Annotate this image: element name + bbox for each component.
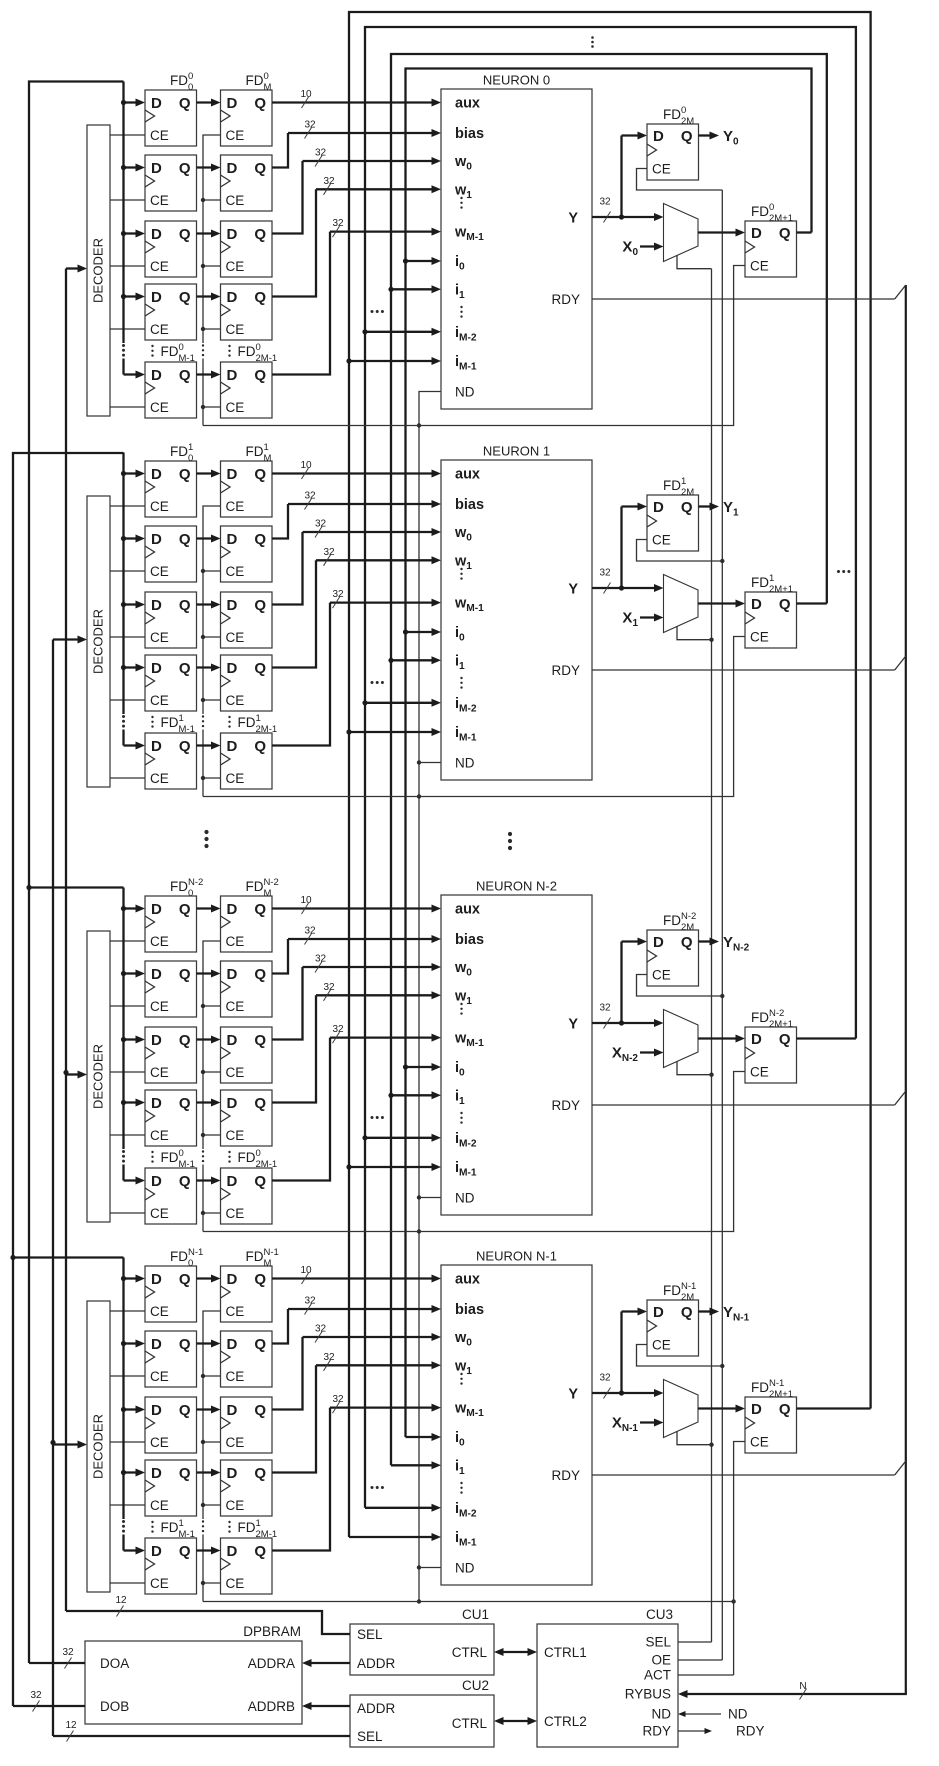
wire RDY output section 2 (592, 1091, 906, 1105)
junction CE bus row 1 section 0 (201, 198, 205, 202)
wire Q to D row 2 section 2 (197, 1036, 221, 1044)
svg-text:CE: CE (750, 630, 769, 645)
flip-flop FD2M-1^N-2 section 2 (221, 1168, 273, 1224)
junction SEL line section 2 (709, 1073, 713, 1077)
wire YN-1 output section 3 (699, 1304, 750, 1324)
flip-flop FD0^1 section 1 (145, 461, 197, 517)
svg-text:bias: bias (455, 1302, 484, 1318)
wire Q to D row 4 section 0 (197, 371, 221, 379)
junction OE line section 1 (720, 559, 724, 563)
svg-text:CE: CE (226, 128, 245, 143)
svg-text:1: 1 (256, 713, 261, 724)
wire ND chain vertical linking all sections (419, 392, 441, 1602)
wire mux select to SEL line section 0 (677, 255, 712, 269)
junction CE bus row 1 section 3 (201, 1374, 205, 1378)
svg-text:D: D (751, 596, 762, 613)
flip-flop FD2^0 section 0 (145, 221, 197, 277)
wire mux select to SEL line section 1 (677, 626, 712, 640)
wire i-input tap 1 section 2 (388, 1091, 441, 1099)
svg-text:32: 32 (332, 1024, 344, 1035)
wire D input bus section 1 (122, 453, 124, 746)
svg-text:D: D (653, 934, 664, 951)
wire Q row 2 to neuron input section 1 (272, 528, 441, 605)
wire D bus to FD1 section 2 (124, 970, 146, 978)
svg-text:aux: aux (455, 96, 480, 112)
flip-flop FDM+2^0 section 0 (221, 221, 273, 277)
svg-text:32: 32 (332, 589, 344, 600)
wire Y to FD2M D section 2 (622, 938, 648, 1024)
flip-flop FDM+2^N-2 section 2 (221, 1027, 273, 1083)
svg-text:CE: CE (226, 564, 245, 579)
junction ND line section 2 (417, 1229, 421, 1233)
junction CE bus row 2 section 3 (201, 1440, 205, 1444)
svg-text:D: D (227, 531, 238, 548)
flip-flop FD2^N-2 section 2 (145, 1027, 197, 1083)
wire FD2M CE to OE line section 0 (637, 169, 723, 191)
wire decoder output to CE row 4 section 2 (110, 1212, 145, 1214)
flip-flop FD2M-1^N-1 section 3 (221, 1538, 273, 1594)
junction D bus row 1 section 0 (121, 165, 126, 170)
flip-flop FDM-1^1 section 1 (145, 733, 197, 789)
svg-text:Q: Q (179, 738, 191, 755)
svg-text:0: 0 (179, 342, 184, 353)
svg-text:FD: FD (170, 444, 188, 459)
junction CE bus row 2 section 0 (201, 264, 205, 268)
flip-flop FDM+3^N-2 section 2 (221, 1090, 273, 1146)
svg-text:DECODER: DECODER (91, 609, 106, 674)
wire decoder output to CE row 1 section 1 (110, 570, 145, 572)
svg-text:RDY: RDY (551, 1468, 580, 1483)
flip-flop FDM^N-2 section 2 (221, 896, 273, 952)
svg-text:bias: bias (455, 126, 484, 142)
svg-text:N-1: N-1 (188, 1247, 203, 1258)
svg-text:Q: Q (254, 289, 266, 306)
svg-text:D: D (227, 1465, 238, 1482)
junction OE line section 3 (720, 1364, 724, 1368)
svg-text:CE: CE (226, 1369, 245, 1384)
svg-text:D: D (227, 1402, 238, 1419)
svg-text:FD: FD (246, 879, 264, 894)
wire Q row 3 to neuron input section 0 (272, 185, 441, 296)
svg-text:Q: Q (179, 226, 191, 243)
svg-text:0: 0 (264, 71, 269, 82)
svg-text:Q: Q (254, 1336, 266, 1353)
wire Q to D row 3 section 2 (197, 1099, 221, 1107)
svg-text:2M: 2M (681, 487, 694, 498)
wire i-input tap 2 section 0 (362, 328, 441, 336)
ellipsis between sections center (508, 832, 512, 850)
svg-text:Q: Q (254, 160, 266, 177)
bus width 32 label row 4 section 0 (332, 218, 344, 237)
wire D bus to FD2 section 2 (124, 1036, 146, 1044)
svg-text:D: D (227, 160, 238, 177)
svg-text:D: D (227, 1032, 238, 1049)
svg-text:ND: ND (455, 756, 475, 771)
svg-text:32: 32 (62, 1647, 74, 1658)
bus width 32 label row 2 section 2 (315, 954, 327, 973)
wire RDY external output (678, 1724, 765, 1739)
svg-text:1: 1 (256, 1518, 261, 1529)
junction Y node section 2 (619, 1020, 624, 1025)
wire Y output to mux section 0 (592, 213, 664, 221)
wire decoder output to CE row 3 section 2 (110, 1134, 145, 1136)
flip-flop FD2M-1^1 section 1 (221, 733, 273, 789)
bus width 32 label DOA (62, 1647, 74, 1669)
svg-text:CTRL2: CTRL2 (544, 1714, 587, 1729)
svg-text:FD: FD (663, 913, 681, 928)
svg-text:0: 0 (188, 1258, 193, 1269)
svg-text:CTRL: CTRL (452, 1645, 488, 1660)
svg-text:32: 32 (323, 1352, 335, 1363)
svg-text:Q: Q (779, 596, 791, 613)
svg-text:FD: FD (751, 1380, 769, 1395)
svg-text:FD: FD (170, 73, 188, 88)
flip-flop FDM+1^0 section 0 (221, 155, 273, 211)
wire Q to D row 0 section 0 (197, 99, 221, 107)
bus width 32 label row 4 section 2 (332, 1024, 344, 1043)
svg-text:RDY: RDY (551, 1098, 580, 1113)
junction CE bus row 1 section 2 (201, 1004, 205, 1008)
wire Q row 3 to neuron input section 2 (272, 991, 441, 1102)
svg-text:Q: Q (179, 1336, 191, 1353)
wire D bus to FD1 section 0 (124, 164, 146, 172)
bus width 32 label row 2 section 0 (315, 148, 327, 167)
wire decoder output to CE row 2 section 1 (110, 636, 145, 638)
svg-text:D: D (151, 597, 162, 614)
junction ND pin section 1 (417, 760, 441, 764)
svg-text:N: N (799, 1681, 806, 1692)
wire Y output to mux section 2 (592, 1019, 664, 1027)
flip-flop FD2^1 section 1 (145, 592, 197, 648)
svg-text:M: M (264, 82, 272, 93)
wire D bus to FD4 section 3 (124, 1547, 146, 1555)
neuron NEURON N-2 section 2 (441, 879, 592, 1216)
junction ND line section 0 (417, 423, 421, 427)
svg-text:D: D (151, 1173, 162, 1190)
junction CE bus row 2 section 2 (201, 1070, 205, 1074)
svg-text:1: 1 (179, 1518, 184, 1529)
svg-text:Q: Q (179, 367, 191, 384)
ellipsis i-bus section 0 (371, 310, 384, 313)
wire D bus to FD4 section 1 (124, 742, 146, 750)
wire Q row 3 to neuron input section 1 (272, 556, 441, 667)
wire decoder output to CE row 2 section 2 (110, 1071, 145, 1073)
svg-text:D: D (653, 128, 664, 145)
wire FD2M CE to OE line section 2 (637, 975, 723, 997)
wire D bus to FD0 section 2 (124, 905, 146, 913)
junction ACT at section 3 ND line (731, 1599, 735, 1603)
wire ACT control line from CU3 to section 3 net (733, 1602, 735, 1676)
svg-text:FD: FD (161, 1520, 179, 1535)
svg-text:Q: Q (179, 1173, 191, 1190)
label FD_0^N-2 section 2 (170, 877, 203, 899)
svg-text:aux: aux (455, 902, 480, 918)
label FD_M^0 section 0 (246, 71, 272, 93)
wire aux bus section 2 (272, 905, 441, 913)
wire FD2M CE to OE line section 1 (637, 540, 723, 562)
svg-text:D: D (151, 901, 162, 918)
svg-text:D: D (227, 1095, 238, 1112)
svg-text:2M-1: 2M-1 (256, 353, 278, 364)
bus width 12 label CU1 SEL (115, 1595, 127, 1617)
flip-flop FDM+3^1 section 1 (221, 655, 273, 711)
decoder DECODER section 2 (87, 931, 110, 1222)
bus width slash N on RYBUS wire (799, 1681, 806, 1700)
wire ND net section 1 (203, 637, 745, 797)
svg-text:32: 32 (304, 926, 316, 937)
flip-flop FDM-1^0 section 0 (145, 362, 197, 418)
bus width 32 label Y section 2 (599, 1003, 611, 1029)
svg-text:SEL: SEL (357, 1729, 383, 1744)
wire Q row 1 to neuron input section 3 (272, 1305, 441, 1344)
wire Q to D row 2 section 3 (197, 1406, 221, 1414)
wire CU3 OE output (678, 1659, 722, 1661)
svg-text:D: D (151, 966, 162, 983)
svg-text:32: 32 (323, 547, 335, 558)
svg-text:D: D (151, 738, 162, 755)
wire Y to FD2M D section 0 (622, 132, 648, 218)
flip-flop FD2M^N-1 section 3 (647, 1300, 699, 1356)
wire Q to D row 4 section 2 (197, 1177, 221, 1185)
wire decoder output to CE row 4 section 1 (110, 777, 145, 779)
wire Q to D row 1 section 1 (197, 535, 221, 543)
wire XN-1 input section 3 (612, 1415, 664, 1435)
svg-text:CE: CE (750, 1065, 769, 1080)
junction CE bus row 4 section 1 (201, 776, 205, 780)
wire Y output to mux section 1 (592, 584, 664, 592)
ellipsis CE bus break section 2 (202, 1150, 204, 1162)
ellipsis CE bus break section 3 (202, 1520, 204, 1532)
label FD_M-1^0 section 0 (151, 342, 195, 364)
svg-text:N-2: N-2 (188, 877, 203, 888)
junction ND pin section 2 (417, 1195, 441, 1199)
wire FD2M+1 Q to feedback riser section 2 (797, 1037, 856, 1039)
wire RDY output section 0 (592, 285, 906, 299)
svg-text:CE: CE (150, 1065, 169, 1080)
svg-text:CU2: CU2 (462, 1678, 489, 1693)
label FD_0^N-1 section 3 (170, 1247, 203, 1269)
wire D bus to FD3 section 3 (124, 1469, 146, 1477)
wire Q to D row 2 section 0 (197, 230, 221, 238)
wire Q to D row 3 section 3 (197, 1469, 221, 1477)
svg-text:ADDR: ADDR (357, 1701, 396, 1716)
svg-text:N-2: N-2 (769, 1008, 784, 1019)
svg-text:CE: CE (652, 533, 671, 548)
wire decoder output to CE row 3 section 0 (110, 328, 145, 330)
decoder DECODER section 3 (87, 1301, 110, 1592)
wire mux select to SEL line section 2 (677, 1061, 712, 1075)
svg-text:2M-1: 2M-1 (256, 1529, 278, 1540)
svg-text:N-2: N-2 (264, 877, 279, 888)
wire DOB output (13, 1705, 85, 1707)
svg-text:Q: Q (179, 1271, 191, 1288)
svg-text:CE: CE (150, 934, 169, 949)
wire Y0 output section 0 (699, 128, 740, 148)
svg-text:D: D (151, 1032, 162, 1049)
svg-text:D: D (653, 1304, 664, 1321)
svg-text:DECODER: DECODER (91, 1044, 106, 1109)
junction CE bus row 4 section 0 (201, 405, 205, 409)
svg-text:NEURON N-1: NEURON N-1 (476, 1249, 557, 1264)
wire D bus to FD0 section 3 (124, 1275, 146, 1283)
svg-text:32: 32 (315, 148, 327, 159)
junction D bus row 2 section 1 (121, 602, 126, 607)
ellipsis D bus break section 3 (122, 1520, 125, 1533)
wire RDY output section 3 (592, 1461, 906, 1475)
wire Q to D row 3 section 0 (197, 293, 221, 301)
svg-text:1: 1 (179, 713, 184, 724)
bus width 32 label Y section 0 (599, 197, 611, 223)
flip-flop FDM+3^0 section 0 (221, 284, 273, 340)
flip-flop FDM+3^N-1 section 3 (221, 1460, 273, 1516)
svg-text:32: 32 (315, 1324, 327, 1335)
svg-text:Y: Y (568, 1387, 578, 1403)
svg-text:0: 0 (256, 1148, 261, 1159)
svg-text:FD: FD (751, 1010, 769, 1025)
label FD_M^N-2 section 2 (246, 877, 279, 899)
svg-text:Q: Q (179, 1032, 191, 1049)
bus width 32 label row 3 section 2 (323, 982, 335, 1001)
junction CE bus row 3 section 0 (201, 327, 205, 331)
bus width 32 label row 2 section 3 (315, 1324, 327, 1343)
svg-text:0: 0 (256, 342, 261, 353)
svg-text:0: 0 (179, 1148, 184, 1159)
memory DPBRAM (85, 1624, 302, 1724)
svg-text:Q: Q (179, 597, 191, 614)
wire i-input tap 2 section 1 (362, 699, 441, 707)
flip-flop FD3^1 section 1 (145, 655, 197, 711)
wire D input bus section 3 (122, 1258, 124, 1551)
svg-text:CE: CE (226, 499, 245, 514)
svg-text:Q: Q (179, 289, 191, 306)
control unit CU3 (537, 1607, 678, 1747)
svg-text:D: D (227, 466, 238, 483)
wire CE bus column 2 section 0 (203, 135, 221, 426)
wire i-input tap 0 section 0 (403, 257, 441, 265)
junction D bus row 0 section 2 (121, 906, 126, 911)
svg-text:Q: Q (179, 95, 191, 112)
flip-flop FDM-1^N-2 section 2 (145, 1168, 197, 1224)
wire Y1 output section 1 (699, 499, 740, 519)
svg-text:M-1: M-1 (179, 353, 195, 364)
wire aux bus section 3 (272, 1275, 441, 1283)
wire Q to D row 0 section 1 (197, 470, 221, 478)
wire D bus to FD1 section 1 (124, 535, 146, 543)
svg-text:D: D (227, 597, 238, 614)
wire X1 input section 1 (622, 610, 663, 630)
wire ND external input (678, 1707, 748, 1722)
wire address input to decoder section 3 (53, 1441, 87, 1449)
mux MUX section 1 (664, 575, 699, 633)
svg-text:ND: ND (455, 385, 475, 400)
svg-text:2M+1: 2M+1 (769, 1389, 793, 1400)
wire CU1 ADDR to ADDRA (302, 1659, 350, 1667)
svg-text:CE: CE (226, 1304, 245, 1319)
wire i-input tap 0 section 1 (403, 628, 441, 636)
svg-text:bias: bias (455, 932, 484, 948)
svg-text:CE: CE (652, 162, 671, 177)
junction CE bus row 3 section 1 (201, 698, 205, 702)
svg-text:M-1: M-1 (179, 724, 195, 735)
svg-text:D: D (751, 225, 762, 242)
svg-text:D: D (151, 466, 162, 483)
svg-text:D: D (227, 1543, 238, 1560)
svg-text:ADDRA: ADDRA (248, 1656, 295, 1671)
wire i-input tap 0 section 3 (406, 1433, 442, 1441)
wire CU3 SEL output (678, 1641, 712, 1643)
wire Y output to mux section 3 (592, 1389, 664, 1397)
decoder DECODER section 1 (87, 496, 110, 787)
junction SEL line section 3 (709, 1443, 713, 1447)
neuron NEURON 1 section 1 (441, 444, 592, 781)
svg-text:CE: CE (226, 259, 245, 274)
svg-text:M-1: M-1 (179, 1159, 195, 1170)
junction CE bus row 4 section 3 (201, 1581, 205, 1585)
svg-text:M: M (264, 888, 272, 899)
flip-flop FD1^1 section 1 (145, 526, 197, 582)
junction CE bus row 2 section 1 (201, 635, 205, 639)
wire Q row 2 to neuron input section 3 (272, 1333, 441, 1410)
wire i-input tap 2 section 3 (365, 1504, 441, 1512)
flip-flop FD2M+1^1 section 1 (745, 592, 797, 648)
wire D bus to FD2 section 0 (124, 230, 146, 238)
svg-text:Q: Q (179, 1465, 191, 1482)
wire DOB data bus vertical (13, 453, 124, 1706)
wire Q to D row 2 section 1 (197, 601, 221, 609)
junction D bus row 0 section 3 (121, 1276, 126, 1281)
wire DOA data bus vertical (29, 82, 124, 1664)
mux MUX section 0 (664, 204, 699, 262)
svg-text:CE: CE (150, 564, 169, 579)
svg-text:FD: FD (663, 478, 681, 493)
svg-text:32: 32 (323, 982, 335, 993)
flip-flop FD2M-1^0 section 0 (221, 362, 273, 418)
wire Q row 2 to neuron input section 2 (272, 963, 441, 1040)
wire D bus to FD4 section 0 (124, 371, 146, 379)
svg-text:CE: CE (150, 999, 169, 1014)
wire D bus to FD3 section 1 (124, 664, 146, 672)
label FD_2M+1^1 section 1 (751, 573, 793, 595)
svg-text:FD: FD (161, 1150, 179, 1165)
wire Y to FD2M D section 1 (622, 503, 648, 589)
svg-text:D: D (151, 367, 162, 384)
wire Q to D row 0 section 3 (197, 1275, 221, 1283)
svg-text:CU1: CU1 (462, 1607, 489, 1622)
svg-text:Q: Q (179, 466, 191, 483)
svg-text:CE: CE (150, 1369, 169, 1384)
wire CU1 SEL address bus vertical (65, 269, 67, 1612)
wire i-input tap 3 section 3 (349, 1533, 441, 1541)
svg-text:CE: CE (750, 259, 769, 274)
svg-text:D: D (227, 966, 238, 983)
svg-text:0: 0 (769, 202, 774, 213)
bus width 32 label row 4 section 3 (332, 1394, 344, 1413)
label FD_M^N-1 section 3 (246, 1247, 279, 1269)
flip-flop FD2M^0 section 0 (647, 124, 699, 180)
wire decoder output to CE row 1 section 2 (110, 1005, 145, 1007)
junction D bus row 3 section 2 (121, 1100, 126, 1105)
wire DOA output (29, 1662, 85, 1664)
svg-text:CE: CE (150, 1206, 169, 1221)
svg-text:N-1: N-1 (769, 1378, 784, 1389)
svg-text:D: D (751, 1031, 762, 1048)
svg-text:Q: Q (179, 901, 191, 918)
mux MUX section 3 (664, 1380, 699, 1438)
svg-text:Q: Q (779, 1401, 791, 1418)
svg-text:Y: Y (568, 582, 578, 598)
wire CU2 SEL to address bus (53, 1735, 350, 1737)
ellipsis i-bus section 2 (371, 1116, 384, 1119)
